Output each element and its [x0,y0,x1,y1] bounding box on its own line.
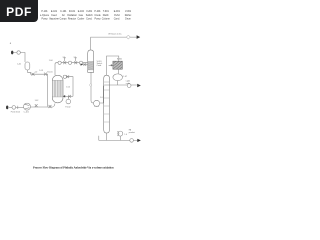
instrument circle FI1 [17,51,20,54]
wire condenser to drum [117,69,119,74]
valve V6 with stem [74,58,77,64]
svg-text:Switch: Switch [86,14,94,17]
svg-text:cw: cw [74,56,77,58]
offgas arrow [137,35,141,39]
svg-text:Cond.: Cond. [86,18,93,20]
wire salt loop top [63,77,73,97]
wire condenser train line [56,62,87,64]
svg-text:1.03: 1.03 [39,70,43,72]
svg-text:Fresh feed: Fresh feed [11,110,20,113]
circle cooler2 [68,61,71,64]
pump salt P-102 [66,96,71,103]
valve inlet C [83,63,86,66]
equipment header row [40,11,132,20]
svg-text:Gas: Gas [79,15,84,17]
svg-text:Drum: Drum [125,17,131,20]
svg-text:Air: Air [62,14,65,17]
reflux drum V-301 [113,74,123,81]
wire column C bottoms [91,72,94,103]
svg-text:E-102: E-102 [78,11,85,13]
svg-text:Compr.: Compr. [60,17,68,20]
svg-text:Distill.: Distill. [103,14,110,17]
wire oxylene feed header [13,53,25,63]
reactor tubes [54,80,62,97]
packing hatch [88,62,93,70]
svg-text:Cond.: Cond. [114,18,121,20]
circle on bottoms [130,139,134,143]
wire distillate product line [104,84,137,86]
circle salt loop top [63,75,66,78]
wire vessel outlet [28,70,31,74]
column T trays [104,82,110,122]
wire column C inlet [83,64,88,66]
svg-text:1.07: 1.07 [123,76,127,78]
svg-text:R-101: R-101 [69,11,76,13]
svg-text:1.0: 1.0 [35,72,38,74]
arrow inlet C [81,63,83,65]
circle cooler1 [58,61,61,64]
arrow distillate [137,84,141,87]
vessel V-101 [25,62,30,70]
valve X3 [35,104,38,107]
svg-text:C-101: C-101 [24,111,29,113]
svg-text:P-201: P-201 [94,11,101,13]
circle on distillate [127,84,131,88]
arrow bottoms product [137,139,141,142]
wire pump P discharge to column T [100,86,105,103]
svg-text:product: product [129,131,136,134]
column C gray packing [88,62,94,70]
svg-text:E-101: E-101 [51,11,58,13]
wire reactor overhead riser [55,63,57,75]
svg-text:Off Gases to Inc.: Off Gases to Inc. [108,33,123,36]
svg-text:E-101: E-101 [48,71,53,73]
svg-text:V-301: V-301 [125,11,132,13]
wire to reactor bottom [53,104,55,107]
wire air header [9,106,24,108]
offgas diamond [126,35,130,39]
PDF badge [0,0,38,22]
svg-text:C-01: C-01 [17,64,21,66]
svg-text:E-301: E-301 [117,58,122,60]
valve V5 with stem [63,58,66,64]
reactor tube band fill [53,80,63,97]
valve X2 [44,73,47,76]
svg-text:ends: ends [126,83,130,85]
svg-text:Vaporizer: Vaporizer [49,17,59,20]
wire offgas riser [91,37,137,50]
svg-text:T-301: T-301 [103,11,110,13]
svg-text:Cond.: Cond. [97,65,103,67]
wire column T overhead [107,56,119,75]
svg-text:a: a [10,42,12,45]
svg-text:E-301: E-301 [114,11,121,13]
svg-text:Cooler: Cooler [77,17,84,20]
valve salt bottom [68,95,71,98]
valve tick [17,106,19,109]
wire salt loop bottom [64,95,73,97]
svg-text:P-101: P-101 [41,11,48,13]
svg-text:o-Xylene: o-Xylene [40,15,50,17]
svg-text:Pump: Pump [94,18,101,20]
svg-text:1.05: 1.05 [66,86,70,88]
valve X4 before reactor [49,105,52,108]
svg-text:1.02: 1.02 [35,100,39,102]
arrow into reactor [63,95,65,98]
svg-text:Reactor: Reactor [68,17,76,20]
pump P-201 [94,100,100,106]
wire column T bottoms drop [105,133,107,140]
svg-text:Reflux: Reflux [125,15,132,17]
reactor R-101 [52,75,63,103]
condenser E-301 hatched box [113,61,122,69]
svg-text:Column: Column [102,18,111,20]
feed oval air [6,106,8,110]
wire compressor outlet [31,106,53,108]
wire bottoms left stub [98,136,100,141]
wire bottoms product line [99,139,138,141]
svg-text:1.04: 1.04 [49,60,53,62]
svg-text:P-102: P-102 [65,107,70,109]
svg-text:Feed: Feed [51,15,57,17]
valve salt top [66,75,69,78]
reboiler B-301 [118,131,123,136]
svg-text:C-101: C-101 [60,11,67,13]
instrument circle FI2 [12,106,16,110]
svg-text:Crude: Crude [94,14,101,17]
svg-text:V-201: V-201 [86,11,93,13]
stream diamond on bottoms [89,84,92,87]
svg-text:Oxidation: Oxidation [67,14,78,17]
svg-text:1.0: 1.0 [124,134,127,136]
compressor C-101 [24,103,31,110]
wire drum to distillate line [117,81,119,85]
svg-text:Ovhd: Ovhd [114,15,120,17]
svg-text:cw: cw [63,56,66,58]
condenser cw stub arrow [109,65,113,67]
column T-301 vacuum still [104,75,110,133]
circle cooler3 [79,61,82,64]
column C-201 switch condenser [88,50,94,72]
wire reboiler stub [119,136,121,140]
svg-text:Pump: Pump [41,18,48,20]
wire pump discharge [31,74,48,106]
valve X1 [32,73,35,76]
feed oval o-xylene [11,51,13,55]
svg-text:Process Flow Diagram of Phthal: Process Flow Diagram of Phthalic Anhydri… [33,166,114,170]
svg-text:1.6: 1.6 [100,97,103,99]
